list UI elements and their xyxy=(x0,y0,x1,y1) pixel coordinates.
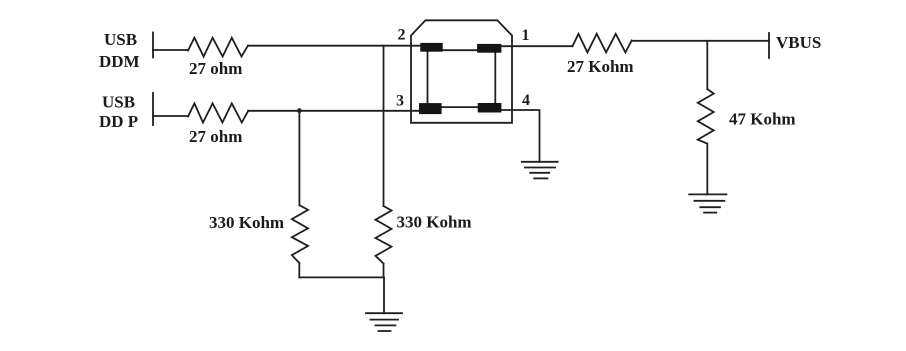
U1 pad pin1 xyxy=(477,44,501,53)
terminal bar USB DDP xyxy=(152,93,154,125)
U1 outline xyxy=(411,20,512,123)
terminal bar USB DDM xyxy=(152,33,154,58)
wire pin1 to R3 xyxy=(501,45,573,47)
resistor R1 27 ohm xyxy=(188,38,248,57)
svg-text:4: 4 xyxy=(522,92,530,109)
svg-text:27 Kohm: 27 Kohm xyxy=(567,57,634,76)
svg-text:27 ohm: 27 ohm xyxy=(189,127,242,146)
svg-text:3: 3 xyxy=(396,93,404,110)
wire R2 to pin3 pad xyxy=(248,110,423,112)
wire node DDP to R4 330Kohm xyxy=(298,111,300,206)
resistor R3 27 Kohm xyxy=(573,34,632,53)
ground GND3 under pin4 xyxy=(522,161,558,163)
svg-text:330 Kohm: 330 Kohm xyxy=(397,213,472,232)
wire pin4 xyxy=(501,110,539,162)
wire bottom node to ground xyxy=(383,277,385,313)
wire node VBUS to R6 xyxy=(706,41,708,89)
svg-text:2: 2 xyxy=(398,27,406,44)
U1 inner link left xyxy=(427,50,429,104)
svg-text:330 Kohm: 330 Kohm xyxy=(209,213,284,232)
svg-text:USB: USB xyxy=(102,93,135,112)
resistor R5 330 Kohm xyxy=(376,206,392,264)
resistor R6 47 Kohm xyxy=(698,89,714,144)
wire DDP bar to R2 xyxy=(153,115,188,117)
wire R4 to R5 bottom xyxy=(299,276,384,278)
U1 pad pin4 xyxy=(478,103,502,113)
ground GND2 under R6 xyxy=(689,193,726,195)
U1 inner link top xyxy=(442,49,478,51)
wire R5 bottom lead xyxy=(383,264,385,278)
resistor R2 27 ohm xyxy=(188,103,248,122)
junction node DDP xyxy=(297,108,302,113)
wire DDM bar to R1 xyxy=(153,49,188,51)
wire R6 to ground xyxy=(706,144,708,195)
terminal bar VBUS xyxy=(768,33,770,58)
svg-text:VBUS: VBUS xyxy=(776,33,821,52)
svg-text:1: 1 xyxy=(522,27,530,44)
svg-text:DD P: DD P xyxy=(99,112,138,131)
wire R1 to pin2 pad xyxy=(248,45,424,47)
ground GND1 bottom xyxy=(366,312,402,314)
U1 pad pin2 xyxy=(420,43,442,52)
svg-text:DDM: DDM xyxy=(99,52,140,71)
wire R3 to VBUS xyxy=(632,40,769,42)
wire node DDM to R5 330Kohm xyxy=(383,46,385,206)
resistor R4 330 Kohm xyxy=(292,205,308,263)
wire R4 bottom lead xyxy=(298,263,300,277)
U1 inner link bottom xyxy=(441,106,479,108)
svg-text:47 Kohm: 47 Kohm xyxy=(729,110,796,129)
U1 pad pin3 xyxy=(419,103,442,114)
U1 inner link right xyxy=(494,51,496,104)
svg-text:USB: USB xyxy=(104,30,137,49)
svg-text:27 ohm: 27 ohm xyxy=(189,59,242,78)
